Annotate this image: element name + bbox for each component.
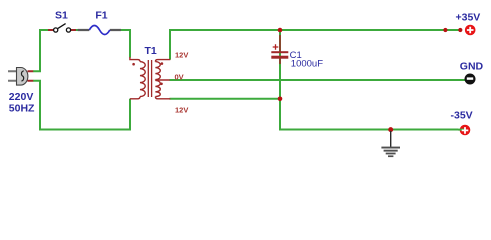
- svg-text:GND: GND: [460, 61, 484, 73]
- svg-text:S1: S1: [55, 10, 68, 22]
- capacitor C1 bottom lead: [279, 59, 281, 64]
- junction dot at ground: [388, 127, 393, 132]
- junction dot at 12V/C1: [278, 97, 283, 102]
- junction dot at C1 top: [278, 28, 283, 33]
- wire fuse to transformer primary top: [121, 30, 131, 58]
- transformer T1 secondary upper winding: [155, 62, 160, 80]
- wire overlay into -35V terminal: [458, 129, 466, 131]
- fuse F1 leads: [78, 29, 121, 31]
- capacitor C1 plates: [271, 51, 288, 53]
- wire plug-top to switch: [33, 30, 49, 71]
- transformer T1 secondary bottom lead: [155, 97, 170, 99]
- wire switch to fuse: [76, 29, 79, 31]
- switch S1 stubs: [48, 29, 76, 31]
- transformer T1 secondary top lead: [155, 60, 170, 62]
- transformer T1 core: [148, 60, 151, 97]
- transformer T1 primary winding: [140, 62, 145, 97]
- ground bars: [381, 147, 400, 149]
- terminal GND: [465, 74, 476, 85]
- transformer phase dot secondary top: [161, 62, 164, 65]
- svg-text:-35V: -35V: [451, 110, 473, 122]
- svg-text:12V: 12V: [175, 106, 188, 115]
- svg-text:12V: 12V: [175, 50, 188, 59]
- wire secondary top to +35V rail: [170, 30, 462, 60]
- terminal -35V: [460, 125, 471, 136]
- transformer phase dot secondary lower: [160, 83, 163, 86]
- terminal +35V: [465, 25, 476, 36]
- switch S1 lever: [58, 24, 66, 29]
- junction dot on +35V wire left: [443, 28, 447, 32]
- wire 0V rail to GND: [170, 79, 468, 81]
- plug S-curve mark: [21, 71, 23, 81]
- svg-text:+35V: +35V: [456, 11, 481, 23]
- svg-text:220V: 220V: [9, 91, 34, 103]
- capacitor C1 top lead: [279, 35, 281, 51]
- transformer phase dot primary: [132, 63, 135, 66]
- svg-text:F1: F1: [95, 10, 107, 22]
- transformer T1 centre-tap lead: [155, 79, 169, 81]
- capacitor C1 polarity plus: [273, 44, 279, 50]
- wire secondary bottom 12V: [170, 98, 281, 100]
- plug pin stubs: [28, 71, 34, 81]
- transformer T1 primary bottom lead: [130, 97, 140, 99]
- svg-text:0V: 0V: [175, 72, 184, 81]
- svg-text:T1: T1: [145, 45, 157, 57]
- switch S1 contact circles: [54, 28, 58, 32]
- plug P1 body: [17, 68, 28, 86]
- transformer T1 primary top lead: [130, 57, 140, 62]
- junction dot on +35V wire right: [458, 28, 462, 32]
- ground stem: [390, 131, 392, 147]
- wire plug-bottom loop to transformer primary bottom: [33, 81, 130, 130]
- transformer T1 secondary lower winding: [155, 80, 160, 96]
- svg-text:1000uF: 1000uF: [291, 59, 323, 70]
- fuse F1 element: [89, 26, 110, 35]
- wire C1 through-line down to -35V rail: [280, 30, 458, 130]
- svg-text:50HZ: 50HZ: [9, 103, 35, 115]
- plug P1 prongs: [8, 71, 17, 81]
